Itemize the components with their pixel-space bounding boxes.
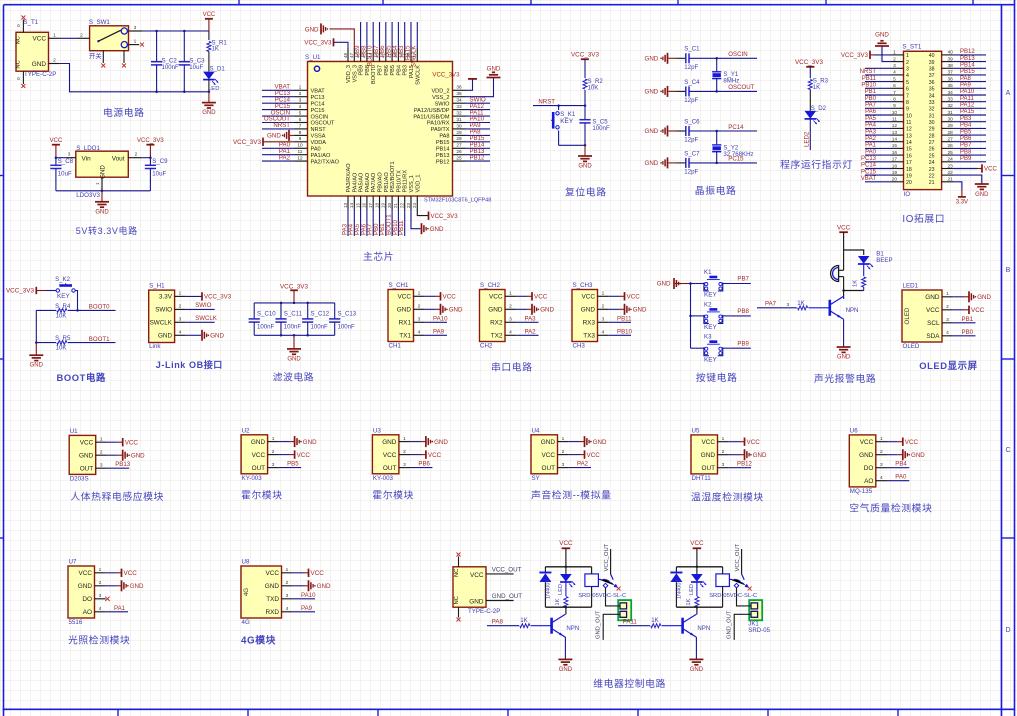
chip bottom pin 21 <box>392 196 399 236</box>
svg-text:NC: NC <box>16 36 22 44</box>
chip left pin 5 <box>262 109 308 116</box>
svg-text:NC: NC <box>454 569 460 577</box>
svg-text:PC14: PC14 <box>861 163 877 169</box>
svg-text:S_C10: S_C10 <box>257 310 276 317</box>
svg-text:SWIO: SWIO <box>195 302 212 309</box>
svg-text:12pF: 12pF <box>684 97 698 104</box>
svg-text:PA12: PA12 <box>960 103 975 109</box>
svg-text:BOOT电路: BOOT电路 <box>57 372 106 383</box>
svg-text:VCC: VCC <box>690 540 704 547</box>
svg-text:K2: K2 <box>704 301 712 308</box>
svg-text:12: 12 <box>297 156 303 162</box>
svg-text:PB14: PB14 <box>436 147 450 153</box>
svg-text:14: 14 <box>906 140 912 146</box>
svg-text:PB10/TX: PB10/TX <box>396 170 402 193</box>
svg-text:16: 16 <box>362 202 367 208</box>
svg-text:12pF: 12pF <box>684 64 698 71</box>
svg-text:VCC: VCC <box>587 452 601 459</box>
svg-text:3.3V: 3.3V <box>956 200 968 206</box>
svg-text:VCC: VCC <box>125 439 139 446</box>
svg-text:程序运行指示灯: 程序运行指示灯 <box>780 158 853 171</box>
chip right pin 36 <box>432 72 477 91</box>
svg-text:Link: Link <box>149 343 161 350</box>
J-Link pin4 GND <box>186 330 225 341</box>
svg-text:KEY: KEY <box>57 293 71 300</box>
IO port right pin 26 <box>929 143 986 153</box>
svg-text:3: 3 <box>906 67 909 73</box>
JK1 SRD-05 label <box>748 620 770 634</box>
svg-text:VCC: VCC <box>470 572 484 579</box>
svg-text:NRST: NRST <box>273 122 290 129</box>
IO port left pin 17 <box>861 156 912 166</box>
svg-text:3: 3 <box>880 462 883 468</box>
svg-text:3: 3 <box>100 462 103 468</box>
svg-text:PC14: PC14 <box>728 124 744 131</box>
svg-text:4: 4 <box>602 330 605 336</box>
svg-text:3: 3 <box>179 317 182 323</box>
ground GND IO port top <box>875 32 889 47</box>
chip left pin 11 <box>262 148 308 155</box>
svg-text:GND: GND <box>469 598 484 605</box>
svg-text:21: 21 <box>393 202 398 208</box>
module U3 hall sensor <box>372 427 448 482</box>
svg-text:BEEP: BEEP <box>876 257 892 264</box>
svg-text:19: 19 <box>906 173 912 179</box>
svg-text:VCC_3V3: VCC_3V3 <box>137 138 164 144</box>
svg-text:PB11/RX: PB11/RX <box>403 170 409 193</box>
svg-text:PA2/TX/AO: PA2/TX/AO <box>311 159 340 165</box>
svg-text:PA7/AO: PA7/AO <box>371 172 377 192</box>
connector ST1 IO header <box>902 44 941 199</box>
svg-text:PC13: PC13 <box>861 156 877 162</box>
svg-text:VSSA: VSSA <box>311 134 326 140</box>
svg-text:维电器控制电路: 维电器控制电路 <box>593 677 666 690</box>
svg-text:PA12/USB/DP: PA12/USB/DP <box>414 108 450 114</box>
module U4 sound sensor <box>531 427 607 482</box>
svg-text:PB10: PB10 <box>617 328 633 335</box>
svg-text:PB8: PB8 <box>960 149 972 155</box>
svg-text:2: 2 <box>135 152 138 158</box>
connector JK relay PA11 <box>749 600 762 620</box>
IO port right pin 32 <box>929 103 986 113</box>
svg-text:霍尔模块: 霍尔模块 <box>372 489 414 502</box>
wire OSCIN row <box>689 51 757 59</box>
svg-text:PA5: PA5 <box>865 116 877 122</box>
svg-text:6: 6 <box>299 117 302 123</box>
IO port left pin 19 <box>861 169 912 179</box>
capacitor C5 100nF <box>579 106 610 146</box>
svg-text:VDD_1: VDD_1 <box>415 174 421 192</box>
wire filter bottom rail <box>254 334 335 336</box>
wire JK pin2 GND_OUT PA11 <box>726 610 751 640</box>
svg-text:OLED显示屏: OLED显示屏 <box>919 360 977 371</box>
svg-text:PB9: PB9 <box>960 156 972 162</box>
svg-text:Vin: Vin <box>82 156 92 163</box>
switch SW1 (开关) <box>76 19 144 67</box>
IO port right pin 28 <box>929 129 986 139</box>
svg-text:GND: GND <box>267 133 281 140</box>
svg-text:PB7: PB7 <box>737 276 749 283</box>
svg-text:VCC: VCC <box>489 294 503 301</box>
svg-text:1K: 1K <box>686 598 692 605</box>
IO port right pin 34 <box>929 89 986 99</box>
svg-text:VDD_3: VDD_3 <box>346 65 352 83</box>
svg-text:BOOT0: BOOT0 <box>371 65 377 84</box>
svg-text:100nF: 100nF <box>311 324 329 331</box>
svg-text:GND: GND <box>690 667 704 673</box>
svg-text:4G: 4G <box>243 588 250 596</box>
svg-text:PC13: PC13 <box>311 95 325 101</box>
chip VSS_1 to GND <box>411 210 444 235</box>
svg-text:30: 30 <box>929 120 935 126</box>
svg-text:VCC: VCC <box>383 452 397 459</box>
svg-text:2: 2 <box>418 304 421 310</box>
svg-text:PB2/BOOT1: PB2/BOOT1 <box>390 161 396 192</box>
svg-text:IO: IO <box>904 191 911 198</box>
capacitor C9 10uF <box>145 158 168 191</box>
power VCC relay PA11 <box>690 540 704 567</box>
svg-text:U5: U5 <box>692 427 700 434</box>
svg-text:3: 3 <box>602 317 605 323</box>
svg-text:VCC_OUT: VCC_OUT <box>604 543 610 571</box>
IO port left pin 2 <box>882 46 909 66</box>
svg-text:GND: GND <box>397 307 412 314</box>
svg-text:39: 39 <box>929 60 935 66</box>
svg-text:PB15: PB15 <box>436 140 450 146</box>
svg-text:霍尔模块: 霍尔模块 <box>241 489 283 502</box>
svg-text:PB6: PB6 <box>384 65 390 76</box>
svg-text:VSS_2: VSS_2 <box>432 95 449 101</box>
svg-text:SDA: SDA <box>926 333 940 340</box>
svg-text:2: 2 <box>80 32 83 38</box>
svg-text:PB1: PB1 <box>962 316 974 323</box>
ground GND LDO <box>95 191 109 216</box>
svg-text:1: 1 <box>509 291 512 297</box>
chip bottom pin 18 <box>373 196 380 236</box>
module U6 MQ-135 <box>849 427 925 495</box>
IO port left pin 7 <box>865 89 909 99</box>
svg-text:PB4: PB4 <box>960 123 972 129</box>
svg-text:S_C7: S_C7 <box>684 150 700 157</box>
svg-text:1: 1 <box>722 436 725 442</box>
key K2 <box>691 301 751 331</box>
relay switch contact PA11 <box>729 543 751 590</box>
svg-text:STM32F103C8T6_LQFP48: STM32F103C8T6_LQFP48 <box>424 198 491 204</box>
svg-text:KEY: KEY <box>560 118 574 125</box>
svg-text:VCC_3V3: VCC_3V3 <box>571 52 599 59</box>
svg-text:LED: LED <box>558 584 564 595</box>
IO port right pin 39 <box>929 56 986 66</box>
wire key bus <box>690 284 692 349</box>
svg-text:D: D <box>1005 627 1010 634</box>
svg-text:PB3: PB3 <box>403 65 409 76</box>
chip right pin 32 <box>453 109 491 116</box>
svg-text:PA10/RX: PA10/RX <box>427 121 450 127</box>
svg-text:AO: AO <box>83 609 92 616</box>
svg-text:U1: U1 <box>70 428 78 435</box>
svg-text:3: 3 <box>418 317 421 323</box>
svg-text:PA8: PA8 <box>439 134 449 140</box>
svg-text:26: 26 <box>929 147 935 153</box>
svg-text:VCC: VCC <box>266 570 280 577</box>
svg-text:TYPE-C-2P: TYPE-C-2P <box>468 608 500 615</box>
svg-text:NRST: NRST <box>860 69 877 75</box>
svg-text:MQ-135: MQ-135 <box>850 488 873 495</box>
wire PC14 row <box>689 124 757 132</box>
svg-text:4: 4 <box>286 606 289 612</box>
ground GND relay PA11 <box>689 637 703 673</box>
svg-text:RX3: RX3 <box>583 320 596 327</box>
svg-text:J-Link OB接口: J-Link OB接口 <box>156 359 223 370</box>
crystal Y1 8MHz <box>712 58 739 91</box>
svg-text:2: 2 <box>722 449 725 455</box>
chip bottom pin 19 <box>379 196 386 236</box>
svg-text:GND: GND <box>578 164 592 170</box>
svg-text:GND: GND <box>130 583 144 590</box>
svg-text:VCC_3V3: VCC_3V3 <box>795 59 823 66</box>
svg-text:BOOT1: BOOT1 <box>89 336 110 343</box>
svg-text:7: 7 <box>906 93 909 99</box>
svg-text:VCC: VCC <box>203 12 216 18</box>
chip right pin 30 <box>453 122 491 129</box>
chip bottom pin 17 <box>367 196 374 236</box>
svg-text:10: 10 <box>297 143 303 149</box>
key K3 <box>691 334 751 364</box>
svg-text:PA8: PA8 <box>492 619 504 626</box>
svg-text:7: 7 <box>299 123 302 129</box>
chip bottom pin 15 <box>354 196 361 236</box>
svg-text:1: 1 <box>418 291 421 297</box>
svg-text:S_D1: S_D1 <box>210 66 226 73</box>
svg-text:2: 2 <box>100 449 103 455</box>
svg-text:VCC: VCC <box>398 294 412 301</box>
capacitor C1 12pF <box>645 46 701 71</box>
svg-text:22: 22 <box>929 173 935 179</box>
IO port right pin 37 <box>929 69 986 79</box>
transistor NPN relay PA11 <box>683 607 711 637</box>
wire Vout to VCC_3V3 <box>142 157 150 159</box>
svg-text:3: 3 <box>272 462 275 468</box>
svg-text:PA4/AO: PA4/AO <box>352 172 358 192</box>
svg-text:VCC_3V3: VCC_3V3 <box>841 52 869 59</box>
chip top GND power <box>305 23 355 48</box>
svg-text:S_T1: S_T1 <box>23 19 38 26</box>
svg-text:PC15: PC15 <box>311 108 325 114</box>
svg-text:1: 1 <box>403 436 406 442</box>
svg-text:VCC: VCC <box>33 36 47 43</box>
chip bottom pin 22 <box>398 196 405 236</box>
IO port left pin 1 <box>841 50 909 60</box>
svg-text:GND: GND <box>645 89 659 96</box>
svg-text:PA10: PA10 <box>433 315 448 322</box>
svg-text:3: 3 <box>68 152 71 158</box>
svg-text:PB1: PB1 <box>865 89 877 95</box>
svg-text:VCC: VCC <box>50 138 63 144</box>
chip top pin 48 <box>343 49 348 62</box>
capacitor C4 12pF <box>645 79 701 104</box>
power VCC relay PA8 <box>559 540 573 567</box>
svg-text:PB11: PB11 <box>862 76 877 82</box>
svg-text:开关: 开关 <box>89 51 102 60</box>
svg-text:GND: GND <box>32 61 47 68</box>
svg-text:32.768KHz: 32.768KHz <box>723 151 753 158</box>
svg-text:PA3: PA3 <box>865 129 877 135</box>
wire JK pin2 GND_OUT PA8 <box>595 610 620 640</box>
resistor 1K relay PA8 <box>555 597 568 608</box>
transistor NPN relay PA8 <box>552 607 580 637</box>
capacitor C2 100nF <box>151 30 179 93</box>
svg-text:TXD: TXD <box>266 596 279 603</box>
svg-text:PB13: PB13 <box>960 56 975 62</box>
svg-text:13: 13 <box>906 133 912 139</box>
svg-text:GND: GND <box>593 439 607 446</box>
svg-text:GND: GND <box>645 56 659 63</box>
svg-text:1K: 1K <box>555 598 561 605</box>
svg-text:1: 1 <box>100 436 103 442</box>
svg-text:OSCIN: OSCIN <box>311 114 329 120</box>
svg-text:RXD: RXD <box>266 609 280 616</box>
svg-text:OUT: OUT <box>80 465 94 472</box>
svg-text:DO: DO <box>82 596 92 603</box>
svg-text:PB13: PB13 <box>436 153 450 159</box>
power VCC_3V3 reset <box>571 52 599 79</box>
IO port right pin 29 <box>929 123 986 133</box>
svg-text:PA15: PA15 <box>960 109 975 115</box>
LED D2 <box>804 105 827 150</box>
key K1 <box>691 269 751 299</box>
svg-text:TYPE-C-2P: TYPE-C-2P <box>24 71 56 78</box>
LED D1 <box>203 66 225 94</box>
buzzer B1 BEEP <box>831 250 893 291</box>
svg-text:35: 35 <box>456 91 462 97</box>
chip left pin 6 <box>262 116 308 123</box>
svg-text:12pF: 12pF <box>684 137 698 144</box>
svg-text:VDD_2: VDD_2 <box>431 89 449 95</box>
chip top pin 39 <box>398 22 405 62</box>
diode 1N4007 PA11 <box>670 567 682 607</box>
power VCC_3V3 filter <box>280 283 308 303</box>
LED relay PA8 <box>558 567 576 596</box>
svg-text:33: 33 <box>456 104 462 110</box>
svg-text:VCC_OUT: VCC_OUT <box>735 543 741 571</box>
IO port left pin 4 <box>860 69 909 79</box>
svg-text:PA2: PA2 <box>577 461 589 468</box>
svg-text:GND: GND <box>859 452 874 459</box>
svg-text:SCL: SCL <box>927 320 940 327</box>
capacitor C8 10uF <box>50 158 73 191</box>
svg-text:RX1: RX1 <box>399 320 412 327</box>
resistor 1K base PA8 <box>487 617 552 628</box>
svg-text:0: 0 <box>16 24 22 27</box>
svg-text:OLED: OLED <box>903 343 920 350</box>
svg-text:GND: GND <box>975 192 989 198</box>
chip top pin 46 <box>354 22 361 62</box>
svg-text:25: 25 <box>929 153 935 159</box>
chip VDD_1 to VCC_3V3 <box>417 210 458 221</box>
svg-text:PB9: PB9 <box>359 65 365 76</box>
svg-text:PA9/TX: PA9/TX <box>431 127 450 133</box>
IO port left pin 15 <box>865 143 912 153</box>
svg-text:4: 4 <box>299 104 302 110</box>
svg-text:20: 20 <box>387 202 392 208</box>
svg-text:1: 1 <box>299 85 302 91</box>
svg-text:GND: GND <box>265 583 280 590</box>
svg-text:3: 3 <box>299 98 302 104</box>
chip top pin 38 <box>404 22 411 62</box>
svg-text:U6: U6 <box>850 427 858 434</box>
net label NRST wire <box>533 98 586 107</box>
svg-text:OSCOUT: OSCOUT <box>728 84 754 91</box>
svg-text:NRST: NRST <box>538 98 555 105</box>
svg-text:3: 3 <box>99 593 102 599</box>
svg-text:声光报警电路: 声光报警电路 <box>814 372 876 385</box>
svg-text:A: A <box>1006 90 1011 97</box>
svg-text:SRD-05: SRD-05 <box>748 627 770 634</box>
ground GND filter <box>287 335 301 362</box>
svg-text:GND: GND <box>305 27 319 34</box>
crystal Y2 32.768KHz <box>712 131 753 163</box>
svg-text:PB5: PB5 <box>390 65 396 76</box>
wire GND return from T1 pin2 <box>60 64 209 92</box>
svg-text:OLED: OLED <box>904 307 911 324</box>
connector S_CH2 body <box>480 282 555 350</box>
svg-text:VCC: VCC <box>124 570 138 577</box>
svg-text:GND: GND <box>202 110 216 116</box>
svg-text:GND: GND <box>449 307 463 314</box>
svg-text:100nF: 100nF <box>257 324 275 331</box>
svg-text:11: 11 <box>906 120 911 126</box>
svg-text:2: 2 <box>99 580 102 586</box>
svg-text:PB5: PB5 <box>287 461 299 468</box>
svg-text:VCC: VCC <box>984 166 997 173</box>
svg-text:27: 27 <box>456 143 462 149</box>
svg-text:VCC: VCC <box>926 307 940 314</box>
OLED body <box>902 283 991 351</box>
ground GND BOOT <box>29 343 43 369</box>
resistor 1K alarm base <box>757 300 830 310</box>
ground GND power circuit <box>202 92 216 116</box>
svg-text:10K: 10K <box>56 312 67 319</box>
svg-text:1: 1 <box>946 291 949 297</box>
svg-text:PA0: PA0 <box>311 147 321 153</box>
relay switch contact PA8 <box>598 543 620 590</box>
svg-text:VCC_3V3: VCC_3V3 <box>204 294 232 301</box>
svg-text:1K: 1K <box>520 617 527 624</box>
svg-text:12: 12 <box>906 127 912 133</box>
wire OSCOUT row <box>689 84 757 92</box>
module U7 light sensor <box>68 559 144 627</box>
svg-text:PA7: PA7 <box>865 103 877 109</box>
svg-text:VCC: VCC <box>79 570 93 577</box>
IO port right pin 31 <box>929 109 986 119</box>
svg-text:S_CH2: S_CH2 <box>480 282 501 289</box>
capacitor S_C12 100nF <box>302 303 330 335</box>
IO port left pin 18 <box>861 163 912 173</box>
svg-text:PB13: PB13 <box>115 461 131 468</box>
svg-text:5516: 5516 <box>69 619 83 626</box>
chip bottom pin 14 <box>348 196 355 236</box>
svg-text:10K: 10K <box>588 85 599 92</box>
svg-text:温湿度检测模块: 温湿度检测模块 <box>691 491 764 504</box>
svg-text:GND: GND <box>925 294 940 301</box>
chip bottom pin 23 <box>406 196 411 210</box>
svg-text:36: 36 <box>929 80 935 86</box>
svg-text:3: 3 <box>286 593 289 599</box>
svg-text:GND: GND <box>541 439 556 446</box>
IO port right pin 22 <box>929 170 989 198</box>
svg-text:PB6: PB6 <box>418 461 430 468</box>
chip bottom pin 20 <box>386 196 393 236</box>
